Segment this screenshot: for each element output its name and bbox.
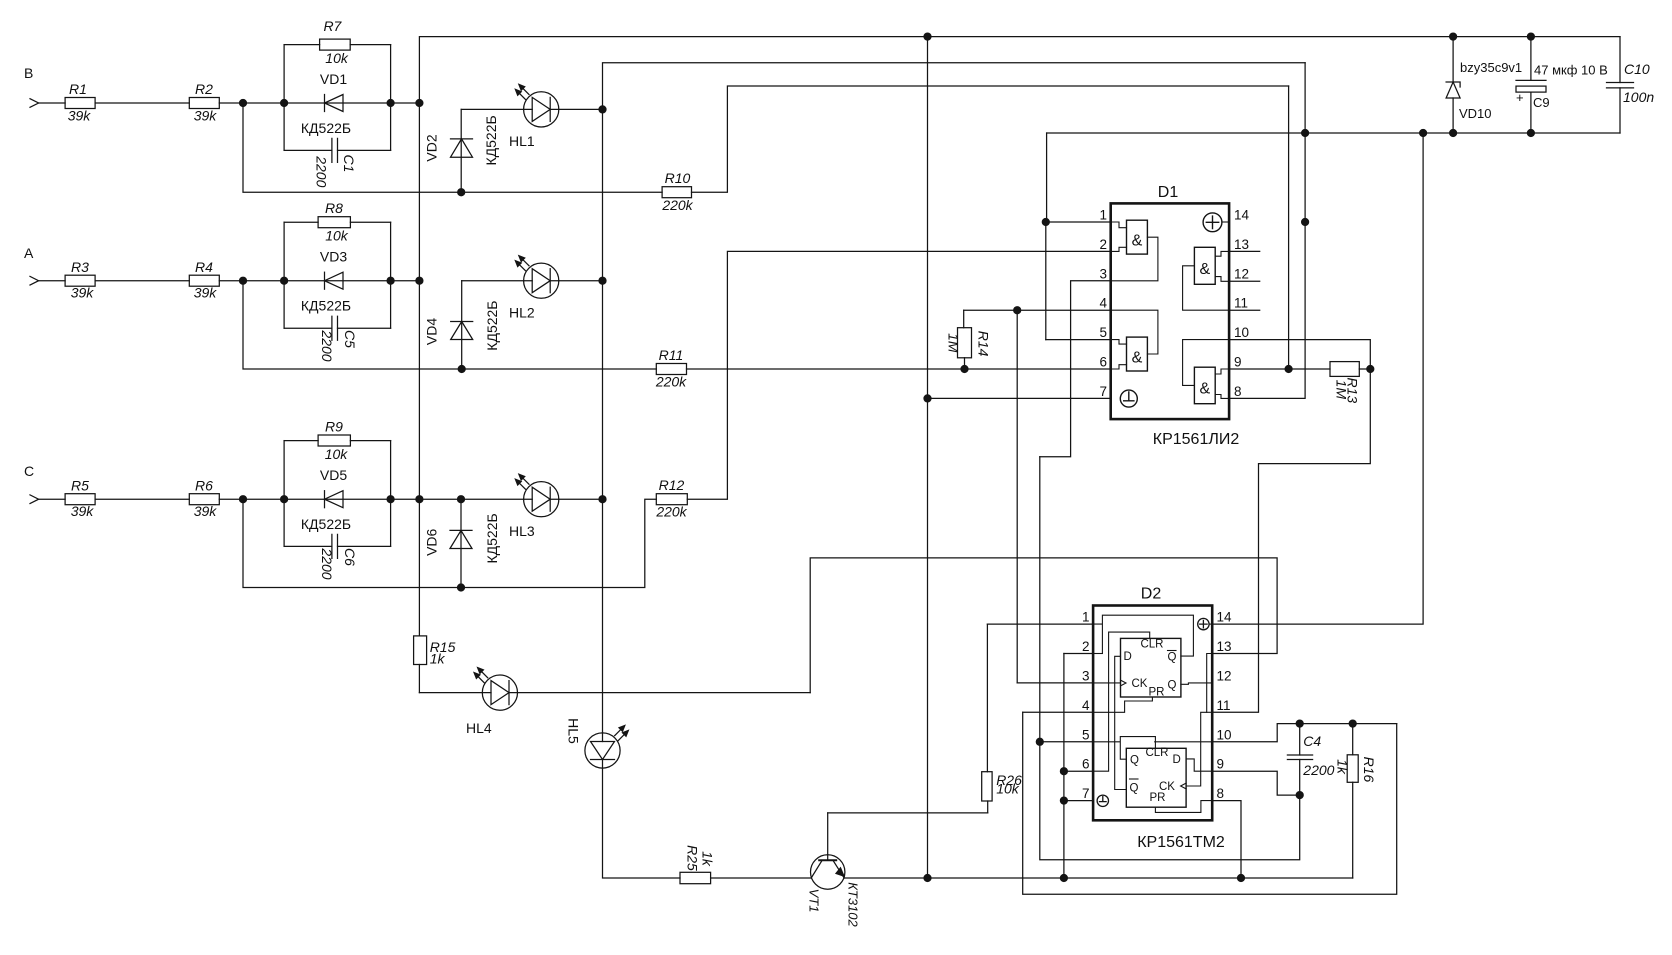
- svg-text:R7: R7: [323, 18, 342, 34]
- D2 internal pin11 stub: [1207, 711, 1213, 713]
- svg-text:39k: 39k: [68, 108, 92, 124]
- svg-text:bzy35c9v1: bzy35c9v1: [1460, 60, 1522, 75]
- wire R3 to R4: [95, 280, 189, 282]
- wire D1 pin3 to riser: [1040, 281, 1111, 457]
- svg-text:КД522Б: КД522Б: [301, 298, 351, 314]
- wire D2 pin1 to R26: [987, 623, 1093, 625]
- svg-text:Q: Q: [1168, 652, 1177, 664]
- svg-text:220k: 220k: [655, 504, 687, 520]
- wire rail y63: [603, 63, 1306, 110]
- svg-text:КД522Б: КД522Б: [484, 301, 500, 351]
- svg-text:VD10: VD10: [1459, 106, 1492, 121]
- svg-text:39k: 39k: [194, 503, 218, 519]
- svg-text:PR: PR: [1150, 792, 1166, 804]
- wire D1 pin4: [964, 310, 1111, 683]
- wire D1 pin11 stub: [1229, 309, 1260, 311]
- wire D2 pin2 pin6 pin7 riser: [1063, 654, 1065, 879]
- svg-text:10: 10: [1234, 325, 1249, 340]
- wire block C right vertical: [390, 441, 392, 547]
- svg-text:C5: C5: [342, 330, 358, 348]
- svg-text:CLR: CLR: [1145, 747, 1168, 759]
- svg-text:47 мкф 10 В: 47 мкф 10 В: [1534, 63, 1608, 78]
- wire D2 pin3 external: [1017, 682, 1093, 684]
- resistor R26 10k: [982, 624, 1022, 813]
- resistor R5 39k: [65, 478, 95, 520]
- D1 plus supply circle: [1203, 213, 1229, 232]
- diode VD3 KD522B: [284, 249, 391, 314]
- resistor R10 220k: [661, 170, 693, 213]
- D1 gate U1C: [1183, 247, 1230, 310]
- svg-text:8: 8: [1217, 786, 1225, 801]
- wire riser x1046 rail133 to D1 pin1: [1045, 133, 1048, 340]
- D2 flip-flop FF2 box: [1126, 747, 1186, 807]
- svg-text:R11: R11: [659, 347, 684, 363]
- svg-text:13: 13: [1234, 237, 1249, 252]
- svg-text:3: 3: [1099, 266, 1107, 281]
- D1 pin numbers right: [1234, 208, 1250, 399]
- resistor R8 10k: [318, 200, 350, 244]
- wire D1 pin10 to R13 and down to D2 pin11: [1212, 340, 1370, 713]
- svg-text:4: 4: [1082, 698, 1090, 713]
- svg-text:&: &: [1132, 233, 1143, 250]
- wire rail y133: [1047, 132, 1620, 134]
- svg-text:1k: 1k: [1335, 759, 1351, 775]
- wire block A left vertical: [283, 222, 285, 328]
- wire D1 pin7: [928, 397, 1111, 399]
- svg-text:VD1: VD1: [320, 71, 347, 87]
- svg-text:&: &: [1199, 261, 1210, 278]
- D2 internal pin4 to PR1: [1093, 697, 1152, 712]
- wire D1 pin9: [1229, 368, 1330, 370]
- wire block A top: [284, 221, 391, 223]
- resistor R3 39k: [65, 259, 95, 301]
- svg-text:VD6: VD6: [423, 528, 439, 555]
- transistor VT1 KT3102: [807, 813, 861, 928]
- resistor R7 10k: [320, 18, 351, 66]
- svg-text:Q: Q: [1130, 755, 1139, 767]
- D1 pin numbers left: [1099, 208, 1107, 399]
- svg-text:2200: 2200: [1302, 762, 1334, 778]
- svg-text:2200: 2200: [314, 155, 330, 187]
- svg-text:R4: R4: [195, 259, 213, 275]
- LED HL4: [466, 667, 518, 736]
- D1 gate U1A: [1111, 220, 1158, 281]
- wire HL2 branch: [462, 280, 603, 282]
- wire R1 to R2: [95, 102, 189, 104]
- svg-text:CK: CK: [1132, 678, 1148, 690]
- capacitor C6 2200: [284, 534, 391, 579]
- wire R11 to D1 pin6: [687, 368, 1111, 370]
- D1 gate U1D: [1183, 340, 1230, 404]
- svg-text:14: 14: [1217, 610, 1233, 625]
- D2 internal pin3 to CK1: [1093, 682, 1120, 684]
- svg-text:2: 2: [1082, 639, 1090, 654]
- svg-text:PR: PR: [1149, 687, 1165, 699]
- svg-text:R10: R10: [665, 170, 691, 186]
- svg-text:R16: R16: [1361, 757, 1377, 783]
- svg-text:VD5: VD5: [320, 467, 347, 483]
- node junction A bypass: [240, 277, 247, 284]
- svg-text:VD3: VD3: [320, 249, 347, 265]
- D2 internal pin9 to D2 input: [1186, 759, 1212, 771]
- wire trunk x927: [927, 37, 929, 878]
- wire R2 to block B: [219, 102, 284, 104]
- svg-text:VD4: VD4: [423, 318, 439, 345]
- svg-text:D: D: [1124, 651, 1132, 663]
- wire VT1 emitter bottom rail: [844, 877, 1352, 879]
- svg-text:7: 7: [1099, 384, 1107, 399]
- wire B bypass down and right to R10: [243, 103, 662, 192]
- svg-text:R14: R14: [976, 331, 992, 357]
- svg-text:11: 11: [1234, 296, 1248, 311]
- svg-text:C: C: [24, 463, 34, 479]
- wire C4 node to R16: [1300, 723, 1397, 725]
- D2 internal pin1 loop to Q1bar: [1093, 615, 1193, 656]
- svg-text:&: &: [1132, 350, 1143, 367]
- svg-text:КД522Б: КД522Б: [301, 120, 351, 136]
- D2 internal pin5 CLR2 Q2: [1093, 737, 1155, 760]
- wire riser x1288 rail86 to pin9: [1288, 86, 1290, 369]
- svg-text:R8: R8: [325, 200, 343, 216]
- svg-text:13: 13: [1217, 639, 1232, 654]
- LED HL5 vertical: [566, 718, 629, 768]
- wire D2 pin5 external: [1040, 741, 1093, 743]
- svg-text:КД522Б: КД522Б: [483, 115, 499, 165]
- wire R6 to block C: [219, 498, 284, 500]
- svg-text:1M: 1M: [1334, 380, 1350, 400]
- LED HL2: [509, 255, 559, 320]
- capacitor C9 47uF electrolytic: [1516, 37, 1608, 133]
- svg-text:A: A: [24, 245, 34, 261]
- svg-text:2200: 2200: [319, 547, 335, 579]
- D2 internal pin13 to CK2: [1186, 654, 1212, 787]
- wire D2 pin4 riser and bottom wire2: [1023, 712, 1397, 894]
- D2 plus supply circle: [1198, 618, 1212, 629]
- wire HL4 riser to D2 pin13: [810, 558, 1277, 693]
- svg-text:100n: 100n: [1623, 89, 1654, 105]
- svg-text:R12: R12: [659, 477, 685, 493]
- svg-text:HL2: HL2: [509, 305, 535, 321]
- svg-text:10: 10: [1217, 727, 1232, 742]
- svg-text:39k: 39k: [71, 285, 95, 301]
- resistor R1 39k: [65, 81, 95, 124]
- svg-text:C6: C6: [342, 548, 358, 566]
- svg-text:D2: D2: [1141, 586, 1162, 603]
- svg-text:+: +: [1516, 90, 1524, 105]
- resistor R15 1k: [414, 636, 456, 693]
- wire D2 pin8 riser to bottom rail: [1212, 801, 1241, 878]
- resistor R2 39k: [189, 81, 219, 124]
- svg-text:11: 11: [1217, 698, 1231, 713]
- svg-text:&: &: [1199, 381, 1210, 398]
- wire D2 pin14 to rail133: [1212, 133, 1423, 624]
- svg-text:1k: 1k: [700, 851, 716, 867]
- wire C row through HL3 to trunk: [391, 498, 603, 500]
- svg-text:R1: R1: [69, 81, 87, 97]
- LED HL1: [509, 84, 559, 149]
- op IC D1 KR1561LI2 box: [1111, 184, 1240, 448]
- wire R5 to R6: [95, 498, 189, 500]
- wire block C top: [284, 440, 391, 442]
- svg-text:R6: R6: [195, 478, 213, 494]
- svg-text:R25: R25: [685, 845, 701, 871]
- svg-text:10k: 10k: [996, 781, 1020, 797]
- LED HL3: [509, 474, 559, 539]
- wire C bypass down and right: [243, 499, 656, 587]
- wire A row to trunk: [391, 280, 420, 282]
- node junction B bypass: [240, 100, 247, 107]
- D2 internal D1 to Q2bar: [1115, 656, 1127, 789]
- svg-text:9: 9: [1234, 355, 1242, 370]
- svg-text:C10: C10: [1624, 61, 1650, 77]
- svg-text:HL4: HL4: [466, 720, 492, 736]
- resistor R6 39k: [189, 478, 219, 520]
- svg-text:КР1561ЛИ2: КР1561ЛИ2: [1153, 431, 1240, 448]
- svg-text:КД522Б: КД522Б: [301, 516, 351, 532]
- svg-text:2: 2: [1099, 237, 1107, 252]
- diode VD2 KD522B vertical: [424, 109, 500, 195]
- svg-text:220k: 220k: [655, 374, 687, 390]
- svg-text:R9: R9: [325, 419, 343, 435]
- svg-text:HL3: HL3: [509, 523, 535, 539]
- svg-text:R5: R5: [71, 478, 89, 494]
- svg-text:5: 5: [1082, 727, 1090, 742]
- D2 internal pin6 to CLR1: [1093, 632, 1150, 771]
- wire trunk x420 R15 top: [418, 103, 420, 636]
- diode VD6 KD522B vertical: [423, 499, 500, 591]
- wire D2 pin10 to C4 top node: [1212, 724, 1300, 742]
- wire D1 pin13 stub: [1229, 250, 1260, 252]
- svg-text:B: B: [24, 65, 33, 81]
- wire D2 pin4 external: [1023, 711, 1093, 713]
- svg-text:6: 6: [1099, 355, 1107, 370]
- D1 ground circle pin7: [1120, 390, 1137, 407]
- svg-text:12: 12: [1217, 668, 1232, 683]
- svg-text:Q: Q: [1168, 680, 1177, 692]
- resistor R14 1M: [946, 310, 992, 372]
- resistor R11 220k: [655, 347, 687, 390]
- node A input: [24, 245, 65, 285]
- resistor R13 1M: [1330, 362, 1374, 404]
- svg-text:HL5: HL5: [566, 718, 582, 744]
- wire B row to trunk: [391, 102, 420, 104]
- resistor R16 1k: [1335, 724, 1378, 878]
- svg-text:КР1561ТМ2: КР1561ТМ2: [1137, 834, 1225, 851]
- svg-text:7: 7: [1082, 786, 1090, 801]
- wire trunk x602: [602, 109, 604, 733]
- D2 pin numbers left: [1082, 610, 1090, 802]
- wire VT1 base to R26: [828, 812, 988, 814]
- wire D1 pin3 riser to D2 pin5 and C4 bottom: [1040, 457, 1300, 860]
- svg-text:HL1: HL1: [509, 133, 535, 149]
- wire block B top: [284, 44, 391, 46]
- wire R10 right riser to rail y86: [692, 86, 1289, 192]
- wire block B right vertical: [390, 45, 392, 151]
- capacitor C10 100n: [1607, 37, 1655, 133]
- svg-text:CLR: CLR: [1140, 639, 1163, 651]
- svg-text:12: 12: [1234, 266, 1249, 281]
- svg-text:3: 3: [1082, 668, 1090, 683]
- wire D2 pin9 to C4 bottom: [1212, 771, 1300, 795]
- D1 gate U1B: [1111, 310, 1158, 371]
- svg-text:1M: 1M: [946, 333, 962, 353]
- svg-text:8: 8: [1234, 384, 1242, 399]
- svg-text:5: 5: [1099, 325, 1107, 340]
- wire R12 right riser to D1 pin2: [687, 251, 1110, 499]
- node C input: [24, 463, 65, 504]
- wire HL4 row: [419, 692, 810, 694]
- svg-text:2200: 2200: [319, 329, 335, 361]
- svg-text:9: 9: [1217, 757, 1225, 772]
- wire R4 to block A: [219, 280, 284, 282]
- svg-text:Q: Q: [1130, 783, 1139, 795]
- resistor R4 39k: [189, 259, 219, 301]
- diode VD1 KD522B: [284, 71, 391, 136]
- wire D1 pin1: [1046, 221, 1111, 223]
- D2 internal pin10 stub: [1155, 741, 1213, 743]
- svg-text:1k: 1k: [430, 651, 446, 667]
- diode VD5 KD522B: [284, 467, 391, 532]
- D2 flip-flop FF1 box: [1121, 638, 1181, 698]
- svg-text:39k: 39k: [71, 503, 95, 519]
- wire D1 pin12 stub: [1229, 280, 1260, 282]
- wire HL5 down to bottom: [603, 768, 681, 878]
- svg-text:C4: C4: [1303, 733, 1321, 749]
- D2 internal pin2 to D1 input: [1093, 653, 1102, 655]
- svg-text:1: 1: [1099, 208, 1107, 223]
- svg-text:1: 1: [1082, 610, 1090, 625]
- wire D2 pin7 external: [1064, 800, 1093, 802]
- D2 internal pin8 to PR2: [1155, 801, 1212, 813]
- svg-text:VD2: VD2: [424, 134, 440, 161]
- D2 pin numbers right: [1217, 610, 1233, 802]
- svg-text:КТ3102: КТ3102: [846, 882, 861, 927]
- wire block B left vertical: [283, 45, 285, 151]
- resistor R25 1k: [680, 845, 716, 884]
- wire R25 to VT1: [711, 877, 812, 879]
- svg-text:D: D: [1173, 754, 1181, 766]
- svg-text:КД522Б: КД522Б: [484, 513, 500, 563]
- resistor R12 220k: [655, 477, 687, 520]
- svg-text:6: 6: [1082, 757, 1090, 772]
- wire HL1 branch: [461, 108, 602, 110]
- wire D2 pin2 external: [1064, 653, 1093, 655]
- svg-text:D1: D1: [1158, 184, 1179, 201]
- wire D1 pin5: [1046, 339, 1111, 341]
- D2 ground circle pin7: [1097, 795, 1108, 806]
- wire A bypass down and right to R11: [243, 281, 656, 369]
- wire D2 pin6 external: [1064, 770, 1093, 772]
- svg-text:C1: C1: [341, 155, 357, 173]
- flip-flop IC D2 KR1561TM2 box: [1093, 586, 1225, 852]
- svg-text:4: 4: [1099, 296, 1107, 311]
- resistor R9 10k: [318, 419, 350, 463]
- svg-text:14: 14: [1234, 208, 1250, 223]
- capacitor C4 2200: [1287, 720, 1334, 799]
- svg-text:R2: R2: [195, 81, 213, 97]
- capacitor C5 2200: [284, 316, 391, 362]
- svg-text:10k: 10k: [325, 228, 349, 244]
- node B input: [24, 65, 65, 107]
- svg-text:VT1: VT1: [807, 889, 822, 913]
- wire block A right vertical: [390, 222, 392, 328]
- svg-text:10k: 10k: [325, 446, 349, 462]
- diode VD4 KD522B vertical: [423, 281, 500, 373]
- svg-text:39k: 39k: [194, 108, 218, 124]
- svg-text:220k: 220k: [661, 197, 693, 213]
- wire top rail: [419, 37, 1620, 103]
- capacitor C1 2200: [284, 138, 391, 187]
- svg-text:R3: R3: [71, 259, 89, 275]
- wire riser x1305 rail63 to rail133 to D1 pin14 pin8: [1229, 63, 1305, 399]
- node junction C bypass: [240, 496, 247, 503]
- svg-text:C9: C9: [1533, 95, 1550, 110]
- D2 internal Q1 to pin12: [1181, 683, 1212, 684]
- svg-text:10k: 10k: [325, 50, 349, 66]
- diode VD10 bzy35c9v1 zener: [1446, 37, 1522, 133]
- svg-text:39k: 39k: [194, 285, 218, 301]
- wire block C left vertical: [283, 441, 285, 547]
